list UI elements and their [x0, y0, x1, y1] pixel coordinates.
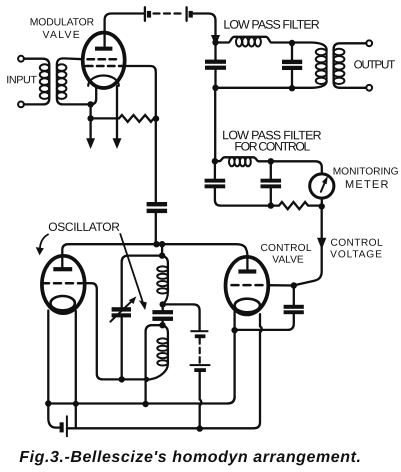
svg-text:INPUT: INPUT: [6, 74, 37, 86]
svg-text:MONITORING: MONITORING: [333, 167, 399, 178]
svg-text:Fig.3.-Bellescize's homodyn ar: Fig.3.-Bellescize's homodyn arrangement.: [19, 449, 361, 466]
svg-text:OSCILLATOR: OSCILLATOR: [48, 220, 120, 234]
svg-text:VALVE: VALVE: [272, 255, 304, 266]
svg-text:CONTROL: CONTROL: [260, 243, 311, 254]
svg-text:VALVE: VALVE: [42, 30, 79, 41]
svg-text:FOR CONTROL: FOR CONTROL: [234, 140, 310, 154]
svg-text:METER: METER: [345, 179, 388, 191]
svg-text:CONTROL: CONTROL: [330, 238, 383, 249]
svg-text:LOW PASS FILTER: LOW PASS FILTER: [223, 18, 319, 32]
svg-text:MODULATOR: MODULATOR: [30, 17, 95, 28]
svg-text:OUTPUT: OUTPUT: [354, 58, 396, 71]
svg-text:VOLTAGE: VOLTAGE: [330, 249, 382, 260]
